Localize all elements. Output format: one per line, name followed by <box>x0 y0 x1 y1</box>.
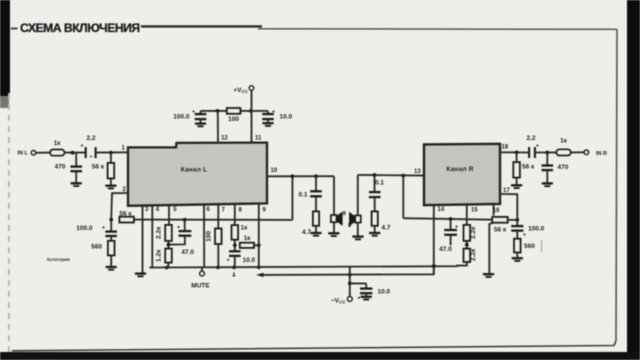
svg-text:56 к: 56 к <box>119 211 132 218</box>
resistor 1.2k (left) <box>165 249 172 263</box>
svg-text:15: 15 <box>471 208 478 214</box>
ground (560 left) <box>106 266 117 268</box>
svg-text:8: 8 <box>348 223 351 229</box>
resistor 1k (right input) <box>556 149 571 155</box>
ground (speaker L) <box>328 232 339 234</box>
svg-text:2.2к: 2.2к <box>470 226 477 239</box>
capacitor 100.0 (right fb) <box>516 220 518 226</box>
resistor 2.2k (right lower) <box>464 249 471 262</box>
resistor 2.2k (left) <box>168 205 170 225</box>
svg-text:2.2: 2.2 <box>526 135 535 142</box>
black bar bottom <box>0 352 640 360</box>
ground (470 left) <box>71 182 82 184</box>
capacitor 2.2 (right input) <box>528 147 530 158</box>
ground (56k left) <box>105 185 116 187</box>
svg-text:470: 470 <box>55 164 66 171</box>
resistor 56k (right fb) <box>492 217 508 223</box>
speaker left 8 ohm <box>333 176 335 215</box>
svg-text:18: 18 <box>502 145 509 151</box>
resistor 56k (left fb) <box>119 217 133 223</box>
svg-text:10: 10 <box>271 168 278 174</box>
svg-text:56 к: 56 к <box>494 226 507 233</box>
svg-text:10.0: 10.0 <box>243 257 256 264</box>
svg-text:IN L: IN L <box>18 151 29 157</box>
wire rail B (to -Vcc) <box>256 273 264 277</box>
wire feedback riser R <box>402 176 404 219</box>
svg-text:СХЕМА ВКЛЮЧЕНИЯ: СХЕМА ВКЛЮЧЕНИЯ <box>20 21 140 35</box>
svg-text:11: 11 <box>255 136 262 142</box>
frame top edge <box>258 28 617 31</box>
wire <box>571 151 584 153</box>
capacitor 2.2 (left input) <box>85 147 87 158</box>
svg-text:10.0: 10.0 <box>280 113 293 120</box>
resistor 1k (pin 8 vertical) <box>234 205 236 226</box>
pin 9 wire <box>258 204 260 267</box>
minus mark <box>233 272 236 276</box>
ground (pin 16) <box>483 273 494 275</box>
svg-text:0.1: 0.1 <box>375 180 384 187</box>
resistor 2.2k (right upper) <box>466 205 468 225</box>
node junction 2.2k/1.2k <box>168 241 170 249</box>
black bar top-left <box>0 0 10 96</box>
svg-text:1к: 1к <box>54 140 62 147</box>
capacitor 0.1 (left zobel) <box>315 176 317 191</box>
svg-text:100: 100 <box>228 116 239 123</box>
svg-text:470: 470 <box>558 164 569 171</box>
speaker right 8 ohm <box>357 175 359 216</box>
svg-text:2.2к: 2.2к <box>470 248 477 261</box>
pin 12 <box>217 111 219 143</box>
left scan edge line <box>8 93 10 352</box>
svg-text:1к: 1к <box>560 138 568 145</box>
svg-text:8: 8 <box>343 211 346 217</box>
svg-text:1к: 1к <box>241 225 249 232</box>
pin 3 to ground <box>142 206 144 273</box>
ground (560 right) <box>512 257 523 259</box>
capacitor 100.0 (Vcc) <box>200 111 202 114</box>
wire feedback R <box>403 218 492 220</box>
wire <box>535 151 556 153</box>
op-amp U1 Канал L <box>128 143 267 206</box>
svg-text:16: 16 <box>493 208 500 214</box>
svg-text:2.2к: 2.2к <box>156 226 163 239</box>
title rule <box>141 25 262 27</box>
node MUTE terminal <box>201 267 203 271</box>
capacitor 100.0 (left fb) <box>110 220 112 232</box>
capacitor 470 (right input) <box>546 153 548 166</box>
svg-text:MUTE: MUTE <box>191 283 210 290</box>
ground (470 right) <box>542 182 553 184</box>
ground (left zobel) <box>310 232 321 234</box>
capacitor 47.0 (left) <box>184 220 186 231</box>
capacitor 47.0 (right) <box>450 219 452 230</box>
svg-text:47.0: 47.0 <box>439 246 452 253</box>
svg-text:Канал R: Канал R <box>446 166 473 173</box>
resistor 56k (left input) <box>110 153 112 163</box>
svg-text:17: 17 <box>503 188 510 194</box>
wire feedback L <box>134 219 293 221</box>
ground (speaker R) <box>352 235 363 237</box>
pin 18 wire <box>500 151 529 153</box>
capacitor 470 (left input) <box>75 153 77 167</box>
resistor 100 (Vcc) <box>227 108 241 114</box>
svg-text:100: 100 <box>206 230 213 241</box>
svg-text:Канал L: Канал L <box>181 167 208 174</box>
resistor 100 (pin 7) <box>217 205 219 229</box>
svg-text:1к: 1к <box>244 235 252 242</box>
wire <box>96 151 128 153</box>
svg-text:56 к: 56 к <box>522 163 535 170</box>
svg-text:100.0: 100.0 <box>528 225 545 232</box>
node junction 2.2k/2.2k <box>466 241 468 249</box>
pin 14 wire <box>433 205 435 274</box>
node -Vcc tap <box>348 273 352 277</box>
wire <box>36 152 50 154</box>
node IN R terminal <box>584 150 589 155</box>
resistor 56k (right input) <box>516 152 518 162</box>
resistor 1k (left input) <box>50 150 65 156</box>
svg-text:1.2к: 1.2к <box>156 249 163 262</box>
wire Vcc rail <box>201 110 268 112</box>
svg-text:IN R: IN R <box>596 151 607 157</box>
frame bottom edge <box>12 341 616 351</box>
resistor 560 (right fb) <box>514 239 521 253</box>
svg-text:47.0: 47.0 <box>181 249 194 256</box>
wire feedback riser L <box>291 176 293 220</box>
svg-text:14: 14 <box>438 207 445 213</box>
title dash <box>11 28 18 30</box>
resistor 560 (left fb) <box>108 241 115 256</box>
capacitor 10.0 (mute) <box>229 250 241 252</box>
svg-text:560: 560 <box>91 244 102 251</box>
svg-text:100.0: 100.0 <box>76 225 93 232</box>
wire output L <box>267 175 334 177</box>
capacitor 10.0 (Vcc) <box>267 111 269 114</box>
svg-text:Категория: Категория <box>47 257 70 262</box>
svg-text:100.0: 100.0 <box>173 114 190 121</box>
frame right edge <box>616 29 617 341</box>
capacitor 0.1 (right zobel) <box>374 175 376 192</box>
pin 6 wire <box>203 205 205 268</box>
svg-text:56 к: 56 к <box>92 164 105 171</box>
pin 4 wire <box>150 205 153 267</box>
ground (pin 3) <box>135 272 146 274</box>
wire Vcc vertical / pin 11 <box>251 90 253 142</box>
svg-text:12: 12 <box>221 135 228 141</box>
resistor 4.7 (right zobel) <box>372 211 378 225</box>
black bar right <box>627 0 640 360</box>
capacitor 10.0 (-Vcc) <box>350 282 366 284</box>
svg-text:13: 13 <box>414 169 421 175</box>
ground (right zobel) <box>369 232 380 234</box>
svg-text:0.1: 0.1 <box>298 192 307 199</box>
pin 2 wire <box>111 193 128 220</box>
svg-text:+VCC: +VCC <box>233 87 248 94</box>
ground (-Vcc cap) <box>361 296 372 298</box>
wire <box>65 152 86 154</box>
svg-text:−VCC: −VCC <box>331 298 346 305</box>
svg-text:4.7: 4.7 <box>302 229 311 236</box>
resistor 4.7 (left zobel) <box>313 211 319 225</box>
node -Vcc terminal <box>349 283 351 296</box>
pin 16 to ground <box>493 204 495 215</box>
ground (56k right) <box>511 184 522 186</box>
wire output R <box>358 174 424 177</box>
resistor 1k (horizontal) <box>240 243 254 248</box>
pin 17 wire <box>500 194 517 220</box>
svg-text:10.0: 10.0 <box>378 289 391 296</box>
svg-text:2.2: 2.2 <box>86 135 95 142</box>
op-amp U2 Канал R <box>424 144 500 205</box>
ground (100.0 Vcc) <box>195 122 206 124</box>
ground (10.0 Vcc) <box>262 122 273 124</box>
svg-text:560: 560 <box>524 243 535 250</box>
wire lower bus (rail A) <box>150 261 467 268</box>
svg-text:4.7: 4.7 <box>382 225 391 232</box>
